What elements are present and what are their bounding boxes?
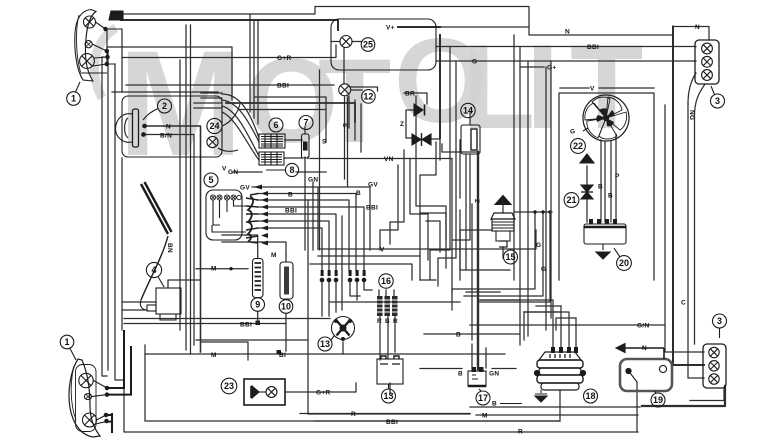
svg-text:S: S xyxy=(341,123,348,128)
wire long S vertical xyxy=(319,70,321,250)
item 13 circle lower xyxy=(382,384,396,403)
wire top thick feed xyxy=(121,20,338,30)
wire relay feeds xyxy=(222,94,259,160)
wire switch fan 2 xyxy=(258,214,336,272)
wire bundle stub 4 xyxy=(194,107,222,109)
dimmer contact scribble xyxy=(246,191,268,246)
wire right bus 5 xyxy=(695,84,706,344)
wire B row xyxy=(424,333,520,335)
svg-text:VN: VN xyxy=(384,156,394,163)
wire mid box horizontal xyxy=(124,318,330,320)
wire stair steps xyxy=(420,213,446,252)
wire 19 drop xyxy=(636,382,638,432)
junction dots row xyxy=(320,270,366,282)
wire fan box xyxy=(559,93,654,280)
svg-text:BBI: BBI xyxy=(587,44,599,51)
ignition coil (item 18) xyxy=(534,347,585,402)
wire bundle stub 1 xyxy=(201,92,222,94)
svg-text:BN: BN xyxy=(166,243,173,253)
item 3 circle top xyxy=(711,86,725,108)
svg-text:B: B xyxy=(492,401,497,408)
wire 17 side xyxy=(420,344,516,369)
item 4 circle xyxy=(146,262,164,287)
wire left bus c xyxy=(115,64,124,380)
item 8 circle xyxy=(266,163,299,176)
wire left bus b xyxy=(107,51,109,370)
lamp box top xyxy=(331,19,436,70)
wire centre bus 3 xyxy=(257,22,259,125)
svg-text:13: 13 xyxy=(383,391,393,401)
wire GN run xyxy=(232,171,326,173)
spark plug (item 15) xyxy=(491,196,515,248)
wire outer switch box top xyxy=(112,91,218,93)
wire switch fan 3 xyxy=(258,221,329,272)
pilot lamp (item 12) xyxy=(339,84,351,96)
light switch block (item 5) xyxy=(206,190,246,240)
wire VN run xyxy=(308,157,452,159)
svg-text:R: R xyxy=(351,411,356,418)
wire left bus d2 xyxy=(121,158,123,330)
svg-text:G: G xyxy=(570,129,575,136)
fuse box (item 10) xyxy=(280,262,293,299)
item 20 circle xyxy=(614,248,631,270)
wire V pack 2 xyxy=(310,256,420,280)
svg-text:V: V xyxy=(380,247,385,254)
item 24 switch circles xyxy=(207,104,240,151)
wire bottom rail3 xyxy=(308,200,470,414)
wire starter down xyxy=(342,342,344,354)
item 9 circle xyxy=(251,298,265,312)
wire L mid xyxy=(202,342,248,360)
svg-text:P: P xyxy=(615,173,620,180)
lamp cluster front (item 1 top) xyxy=(75,10,123,82)
wire bottom rail4 xyxy=(470,407,640,415)
item 25 circle xyxy=(361,38,375,52)
wire bundle stub 3 xyxy=(194,102,222,104)
wire G+R bottom xyxy=(285,383,356,392)
svg-text:4: 4 xyxy=(151,265,156,275)
wire stair pack right xyxy=(420,142,478,340)
wire switch fan 4 xyxy=(258,228,322,272)
fuse (item 7) xyxy=(302,126,310,158)
svg-text:GN: GN xyxy=(228,169,238,176)
svg-text:6: 6 xyxy=(273,120,278,130)
svg-text:GV: GV xyxy=(368,182,378,189)
wire right bus 2 thick xyxy=(673,27,704,366)
wire M run 1 xyxy=(222,235,258,250)
svg-text:21: 21 xyxy=(566,195,576,205)
item 12 circle xyxy=(362,90,376,104)
wire V+ lamp feed xyxy=(436,26,529,28)
item 21 circle xyxy=(564,193,579,208)
item 19 circle xyxy=(651,391,665,407)
wire relay to fuse xyxy=(284,140,302,158)
wire stair e xyxy=(460,140,510,270)
svg-text:GV: GV xyxy=(240,185,250,192)
item 16 circle xyxy=(379,274,393,288)
wire mid drop pack xyxy=(349,96,361,152)
wire VN down xyxy=(451,159,453,241)
svg-text:GN: GN xyxy=(489,371,499,378)
wire fan links with dots xyxy=(452,212,552,310)
svg-text:BBI: BBI xyxy=(277,83,289,90)
wire left mid horizontals xyxy=(122,302,156,310)
pilot lamp (item 25) xyxy=(340,36,352,48)
wire switch fan GV xyxy=(252,187,370,250)
wire N stub to connector 3 xyxy=(673,27,709,41)
wire left pedal link xyxy=(168,280,200,288)
wire horn BN xyxy=(144,135,195,346)
wire horn N xyxy=(145,126,201,352)
BR diode pair 2 xyxy=(412,133,431,146)
ignition switch relays (item 6) xyxy=(259,134,285,165)
svg-text:G+R: G+R xyxy=(277,55,291,62)
BR diode 1 xyxy=(414,104,425,116)
item 23 circle xyxy=(221,378,237,394)
wire fan V top xyxy=(560,87,654,89)
fuse box (item 9) xyxy=(253,259,264,298)
wire 15 down xyxy=(502,247,504,258)
svg-text:BI: BI xyxy=(279,352,286,359)
svg-text:16: 16 xyxy=(381,276,391,286)
item 1 circle top xyxy=(67,82,81,105)
svg-text:14: 14 xyxy=(463,106,473,116)
svg-text:B: B xyxy=(356,190,361,197)
junction dot M xyxy=(229,267,232,270)
svg-text:B: B xyxy=(456,332,461,339)
item 14 circle xyxy=(461,103,475,117)
svg-text:V+: V+ xyxy=(386,25,395,32)
wire lamp12 drops xyxy=(345,97,348,186)
svg-text:N: N xyxy=(642,345,647,352)
wire cluster to bundle xyxy=(107,47,232,100)
wire right bus 3 xyxy=(688,104,704,378)
wire switch fan BBI xyxy=(258,207,364,272)
wire fuse14 drop xyxy=(452,154,470,292)
svg-text:NG: NG xyxy=(688,110,695,120)
wire mid verticals pack xyxy=(305,157,342,310)
svg-text:20: 20 xyxy=(619,258,629,268)
item 13 circle upper xyxy=(318,336,334,351)
lamp unit (item 23) xyxy=(244,379,285,405)
item 7 circle xyxy=(299,116,313,130)
wire switch fan 1 xyxy=(258,200,349,272)
svg-text:B: B xyxy=(458,371,463,378)
regulator (item 17) xyxy=(468,367,486,386)
wire G top run xyxy=(436,60,696,62)
svg-text:GN: GN xyxy=(308,177,318,184)
svg-text:T: T xyxy=(570,20,643,154)
svg-text:I: I xyxy=(526,20,559,154)
wire bottom R mid xyxy=(300,413,470,415)
wire BR drop xyxy=(404,93,427,104)
item 2 circle xyxy=(143,99,172,120)
wire BBI drop right xyxy=(430,47,450,281)
svg-text:R: R xyxy=(377,318,382,325)
svg-text:19: 19 xyxy=(653,395,663,405)
wire 18 region feeds xyxy=(520,47,528,346)
svg-text:B: B xyxy=(385,318,390,325)
wire 16 leads xyxy=(379,290,394,297)
svg-text:M: M xyxy=(211,352,217,359)
svg-text:BBI: BBI xyxy=(386,419,398,426)
wire right bus 1 xyxy=(665,105,704,352)
wire bottom rail2 xyxy=(145,345,560,421)
svg-text:B: B xyxy=(288,192,293,199)
svg-text:G+: G+ xyxy=(547,65,556,72)
brake pedal lever xyxy=(140,182,171,310)
svg-text:M: M xyxy=(482,413,488,420)
svg-text:22: 22 xyxy=(573,141,583,151)
wire diode link xyxy=(406,110,440,160)
svg-text:S: S xyxy=(322,139,327,146)
horn (item 2) xyxy=(115,96,222,157)
item 17 circle xyxy=(476,389,490,405)
junction blobs xyxy=(256,321,282,355)
flasher box (item 19) xyxy=(616,344,672,392)
svg-text:BR: BR xyxy=(405,91,415,98)
item 3 circle bottom xyxy=(713,314,727,338)
wire G drop right xyxy=(438,61,456,286)
wire V+ thick drop xyxy=(398,27,440,138)
wire centre bus 1 xyxy=(249,14,251,112)
wire B mid run xyxy=(330,280,460,302)
wire bottom right thick xyxy=(642,386,725,406)
svg-text:N: N xyxy=(166,124,171,131)
svg-text:Z: Z xyxy=(400,121,404,128)
svg-text:23: 23 xyxy=(224,381,234,391)
wire BBI mid line xyxy=(124,323,286,325)
wire starter feeds xyxy=(322,282,336,316)
wire midleft box xyxy=(180,25,191,354)
svg-text:1: 1 xyxy=(71,94,76,104)
wire coil top bends xyxy=(536,306,576,330)
resistor bank under item 16 xyxy=(377,296,398,316)
svg-text:G/N: G/N xyxy=(637,323,649,330)
wire stair c xyxy=(410,159,428,261)
wire M short xyxy=(196,268,248,270)
lamp cluster rear (item 1 bottom) xyxy=(69,330,131,437)
wire 3b bottom link xyxy=(690,388,724,401)
svg-text:V: V xyxy=(222,166,227,173)
svg-text:17: 17 xyxy=(478,393,488,403)
svg-text:N: N xyxy=(695,24,700,31)
wire G+R left xyxy=(122,45,336,58)
svg-text:B/N: B/N xyxy=(160,133,172,140)
watermark xyxy=(94,14,643,187)
svg-text:2: 2 xyxy=(162,101,167,111)
wire BBI left xyxy=(126,84,334,86)
wire switch fan B xyxy=(258,194,356,273)
stop switch (item 4) xyxy=(147,288,181,320)
connector block bottom (item 3) xyxy=(703,344,726,388)
wire lamp links xyxy=(331,42,378,92)
wire S bend xyxy=(240,97,326,142)
svg-text:25: 25 xyxy=(363,40,373,50)
svg-text:BBI: BBI xyxy=(240,322,252,329)
wire top main N run xyxy=(118,7,673,36)
svg-text:13: 13 xyxy=(320,339,330,349)
wire right link rows xyxy=(466,292,560,312)
ground near fan xyxy=(580,154,594,163)
svg-text:G: G xyxy=(541,266,546,273)
wire left bus d xyxy=(121,29,123,92)
svg-text:N: N xyxy=(565,29,570,36)
svg-text:G: G xyxy=(536,242,541,249)
item 22 circle xyxy=(571,139,586,154)
wire V long run xyxy=(318,230,536,249)
svg-text:1: 1 xyxy=(64,337,69,347)
wire box bottom outer xyxy=(124,332,638,432)
cooling fan (item 22) xyxy=(583,95,629,141)
svg-text:10: 10 xyxy=(281,302,291,312)
wire bottom BBI xyxy=(315,390,560,421)
svg-text:7: 7 xyxy=(303,118,308,128)
wire box9 links xyxy=(258,250,286,351)
item 10 circle xyxy=(279,299,293,313)
svg-text:M: M xyxy=(211,266,217,273)
item 5 circle xyxy=(204,173,218,187)
rectifier box (item 20) xyxy=(584,219,626,259)
svg-text:B: B xyxy=(598,184,603,191)
svg-text:BBI: BBI xyxy=(366,205,378,212)
wire reg21 link xyxy=(586,166,588,222)
wire bundle stub 2 xyxy=(201,97,222,99)
wire stair d xyxy=(416,96,446,268)
svg-text:BBI: BBI xyxy=(285,208,297,215)
wire resistor down xyxy=(380,316,395,360)
svg-text:3: 3 xyxy=(717,316,722,326)
connector block top (item 3) xyxy=(695,40,719,84)
wire battery down xyxy=(389,383,391,395)
wire S thick run xyxy=(226,103,355,122)
svg-text:9: 9 xyxy=(255,300,260,310)
svg-text:3: 3 xyxy=(715,96,720,106)
wire spark feed xyxy=(460,230,492,280)
svg-text:15: 15 xyxy=(505,252,515,262)
svg-text:5: 5 xyxy=(208,175,213,185)
wire mid box horizontal2 xyxy=(196,339,308,341)
wire coil leads up xyxy=(480,300,576,352)
svg-text:8: 8 xyxy=(289,165,294,175)
svg-text:V: V xyxy=(590,86,595,93)
svg-text:Z: Z xyxy=(473,199,480,203)
svg-text:G+R: G+R xyxy=(316,390,330,397)
item 18 circle xyxy=(584,389,598,403)
wire left fanbox feeds xyxy=(514,35,551,330)
wire GN right run xyxy=(470,324,665,326)
wire 17 thick drop xyxy=(477,152,479,369)
svg-text:12: 12 xyxy=(363,91,373,101)
battery (item 13 lower) xyxy=(377,356,403,384)
svg-text:L: L xyxy=(462,20,535,154)
wire resistor feeds xyxy=(350,282,372,300)
wire right bus 4 xyxy=(688,73,696,104)
item 6 circle xyxy=(269,118,283,132)
wire BBI top run xyxy=(436,46,696,48)
item 15 circle xyxy=(504,250,518,264)
svg-text:B: B xyxy=(608,193,613,200)
wire M run 2 xyxy=(222,242,286,255)
wire stair a xyxy=(380,165,398,250)
item 1 circle bottom xyxy=(60,335,76,360)
svg-text:C: C xyxy=(681,300,686,307)
wire centre bus 2 xyxy=(253,22,255,119)
svg-text:24: 24 xyxy=(209,121,219,131)
wire stair b xyxy=(390,150,404,244)
wire fan down leads xyxy=(601,134,616,222)
regulator diodes (item 21) xyxy=(581,185,593,199)
svg-text:R: R xyxy=(518,429,523,436)
svg-text:R: R xyxy=(393,318,398,325)
starter relay (item 13 upper) xyxy=(332,317,355,341)
wire M bottom long xyxy=(145,353,505,355)
svg-text:M: M xyxy=(271,252,277,259)
wire left bus a xyxy=(102,57,107,376)
junction dots fan links xyxy=(533,210,551,213)
svg-text:18: 18 xyxy=(585,391,595,401)
svg-text:G: G xyxy=(472,59,477,66)
fuse (item 14) xyxy=(461,112,480,154)
